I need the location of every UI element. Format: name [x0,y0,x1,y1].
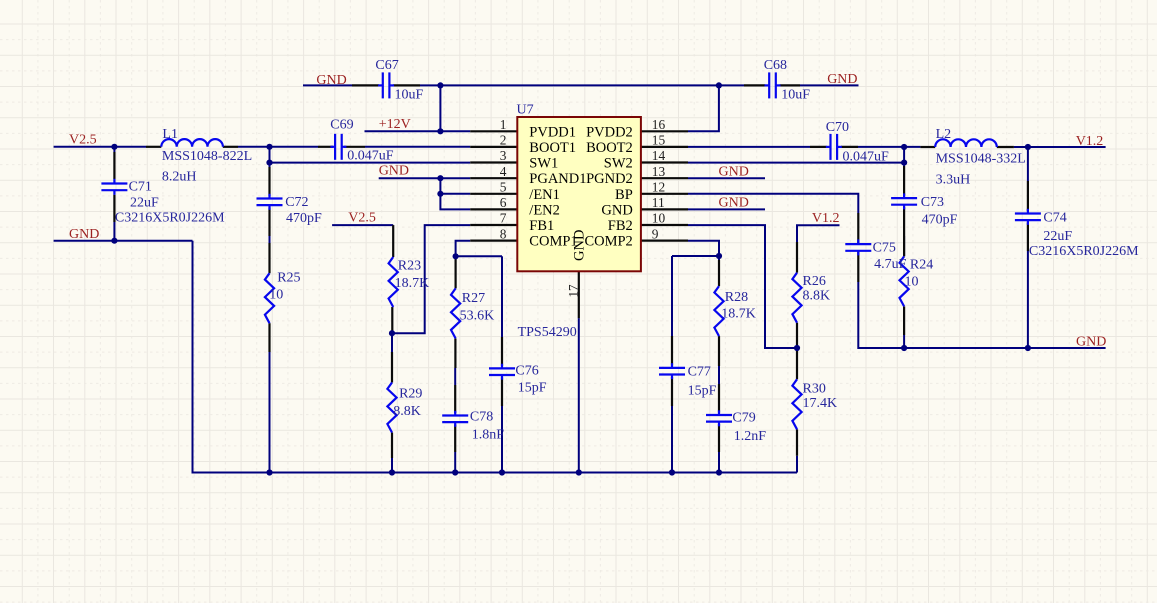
svg-text:6: 6 [500,195,507,210]
svg-text:GND: GND [316,73,346,88]
svg-text:C70: C70 [826,120,849,135]
svg-text:FB2: FB2 [608,218,633,234]
svg-text:GND: GND [601,202,632,218]
svg-text:SW1: SW1 [529,156,558,172]
svg-text:17.4K: 17.4K [803,396,838,411]
svg-text:10: 10 [905,275,919,290]
svg-text:3: 3 [500,148,507,163]
svg-text:C76: C76 [515,364,538,379]
svg-text:GND: GND [572,230,588,261]
svg-text:C3216X5R0J226M: C3216X5R0J226M [115,211,225,226]
svg-text:53.6K: 53.6K [460,308,495,323]
svg-text:GND: GND [379,164,409,179]
svg-text:C77: C77 [688,364,711,379]
svg-text:14: 14 [652,148,666,163]
svg-text:8.8K: 8.8K [803,289,831,304]
svg-text:GND: GND [719,195,749,210]
svg-text:L1: L1 [162,127,178,142]
svg-text:FB1: FB1 [529,218,554,234]
svg-text:GND: GND [69,227,99,242]
svg-text:R23: R23 [398,259,421,274]
svg-text:V2.5: V2.5 [69,133,97,148]
svg-text:8: 8 [500,226,507,241]
svg-text:BOOT2: BOOT2 [586,140,633,156]
svg-text:BP: BP [615,187,633,203]
svg-text:9: 9 [652,226,659,241]
svg-text:12: 12 [652,180,665,195]
svg-text:V1.2: V1.2 [1076,134,1104,149]
svg-text:11: 11 [652,195,665,210]
svg-text:C69: C69 [330,117,353,132]
svg-text:1.8nF: 1.8nF [472,428,505,443]
svg-text:8.8K: 8.8K [393,404,421,419]
svg-text:R24: R24 [910,258,933,273]
svg-text:R29: R29 [399,387,422,402]
svg-text:22uF: 22uF [130,195,159,210]
svg-text:PGAND1: PGAND1 [529,171,586,187]
svg-text:R27: R27 [462,291,485,306]
svg-text:10: 10 [652,211,666,226]
svg-text:+12V: +12V [379,117,411,132]
svg-text:MSS1048-332L: MSS1048-332L [936,152,1026,167]
svg-text:13: 13 [652,164,666,179]
svg-text:R30: R30 [803,382,826,397]
svg-text:C74: C74 [1043,211,1066,226]
svg-text:0.047uF: 0.047uF [843,149,890,164]
svg-text:10: 10 [269,288,283,303]
svg-text:C67: C67 [375,58,398,73]
svg-text:1: 1 [500,117,507,132]
svg-text:V2.5: V2.5 [348,211,376,226]
svg-text:BOOT1: BOOT1 [529,140,576,156]
svg-text:L2: L2 [936,127,952,142]
svg-text:R25: R25 [277,271,300,286]
svg-text:15pF: 15pF [518,381,547,396]
svg-text:5: 5 [500,180,507,195]
svg-text:10uF: 10uF [781,88,810,103]
svg-text:22uF: 22uF [1043,229,1072,244]
svg-text:GND: GND [1076,334,1106,349]
svg-text:470pF: 470pF [286,211,322,226]
svg-text:15: 15 [652,133,666,148]
svg-text:8.2uH: 8.2uH [162,170,197,185]
svg-text:C3216X5R0J226M: C3216X5R0J226M [1029,244,1139,259]
svg-text:COMP1: COMP1 [529,234,577,250]
svg-text:2: 2 [500,133,507,148]
svg-text:C79: C79 [732,411,755,426]
svg-text:15pF: 15pF [688,384,717,399]
svg-text:GND: GND [719,165,749,180]
svg-text:C75: C75 [873,241,896,256]
svg-text:COMP2: COMP2 [584,234,632,250]
svg-text:C68: C68 [764,58,787,73]
svg-text:R26: R26 [803,274,826,289]
svg-text:C78: C78 [470,409,493,424]
svg-text:PGND2: PGND2 [586,171,633,187]
svg-text:PVDD2: PVDD2 [586,124,633,140]
svg-text:10uF: 10uF [395,87,424,102]
svg-text:0.047uF: 0.047uF [347,148,394,163]
svg-text:1.2nF: 1.2nF [734,429,767,444]
svg-text:17: 17 [566,284,581,298]
svg-text:U7: U7 [517,103,534,118]
svg-text:7: 7 [500,211,507,226]
svg-text:3.3uH: 3.3uH [936,173,971,188]
svg-text:C73: C73 [921,195,944,210]
svg-text:R28: R28 [725,290,748,305]
svg-text:MSS1048-822L: MSS1048-822L [162,149,252,164]
svg-text:C71: C71 [129,180,152,195]
svg-text:/EN2: /EN2 [529,202,560,218]
svg-text:SW2: SW2 [604,156,633,172]
svg-text:TPS54290: TPS54290 [518,325,577,340]
svg-text:18.7K: 18.7K [395,276,430,291]
svg-text:4: 4 [500,164,507,179]
svg-text:16: 16 [652,117,666,132]
svg-text:PVDD1: PVDD1 [529,124,576,140]
svg-text:V1.2: V1.2 [812,211,840,226]
svg-text:18.7K: 18.7K [721,307,756,322]
svg-text:470pF: 470pF [922,212,958,227]
svg-text:4.7uF: 4.7uF [874,257,907,272]
svg-text:/EN1: /EN1 [529,187,560,203]
svg-text:C72: C72 [285,195,308,210]
svg-text:GND: GND [827,72,857,87]
